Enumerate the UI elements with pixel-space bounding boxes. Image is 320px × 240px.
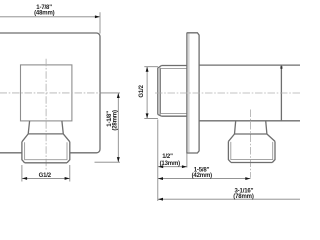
outlet flare side view xyxy=(228,134,275,141)
dimension G1/2 side view line xyxy=(146,67,148,118)
dimension 48mm arrow xyxy=(95,15,100,18)
valve body front square xyxy=(21,65,72,121)
outlet shoulder side view xyxy=(235,133,267,135)
outlet neck side view xyxy=(235,121,267,134)
svg-text:(42mm): (42mm) xyxy=(192,173,213,179)
thread nut G1/2 front view xyxy=(22,142,70,163)
dimension 28mm arrows xyxy=(117,93,120,162)
dimension G1/2 side view extension lines xyxy=(144,67,158,119)
vertical centerline front view xyxy=(45,59,47,170)
svg-text:(48mm): (48mm) xyxy=(34,11,55,17)
dimension 28mm extension bottom xyxy=(95,161,121,163)
mark on right face xyxy=(280,66,282,69)
dimension 13mm extension line xyxy=(186,153,188,168)
svg-text:(28mm): (28mm) xyxy=(112,110,118,131)
svg-text:(13mm): (13mm) xyxy=(160,161,181,167)
dimension 28mm extension top xyxy=(100,92,120,94)
dimension G1/2 side view arrows xyxy=(146,67,149,119)
dimension 42mm arrows xyxy=(158,177,250,180)
dimension G1/2 extension lines xyxy=(22,165,70,182)
dimension 78mm label xyxy=(233,189,254,200)
dimension 78mm line xyxy=(158,198,302,200)
wall flange disc side view xyxy=(187,33,199,153)
dimension 13mm arrows xyxy=(158,165,187,168)
dimension G1/2 line xyxy=(22,177,70,179)
thread nut G1/2 side view xyxy=(228,141,275,162)
dimension 48mm extension line xyxy=(99,12,101,33)
dimension 42mm line xyxy=(158,178,251,180)
svg-text:G1/2: G1/2 xyxy=(39,173,52,179)
dimension 28mm line xyxy=(117,93,119,162)
outlet shoulder line front view xyxy=(28,133,63,135)
flange chamfer line xyxy=(188,33,190,152)
dimension 13mm line xyxy=(158,166,187,168)
dimension G1/2 arrows xyxy=(22,177,70,180)
body right face xyxy=(280,65,282,121)
outlet centerline side view xyxy=(250,110,252,178)
horizontal centerline front view xyxy=(0,92,100,94)
dimension 28mm label xyxy=(107,110,118,131)
svg-text:(78mm): (78mm) xyxy=(233,194,254,200)
threaded inlet stub side view xyxy=(158,68,160,115)
dimension 78mm arrow xyxy=(158,198,163,201)
bottom extension line side view xyxy=(157,120,159,202)
outlet flare cone front view xyxy=(22,134,70,142)
dimension 48mm line xyxy=(0,16,100,18)
thread minor lines side view xyxy=(160,69,187,114)
dimension 48mm label xyxy=(34,5,55,17)
centerline side view xyxy=(155,92,302,94)
dimension 13mm label xyxy=(160,154,181,167)
svg-text:1/2": 1/2" xyxy=(162,154,173,160)
valve body side view xyxy=(199,65,301,121)
outlet neck front view xyxy=(28,121,63,134)
dimension 42mm label xyxy=(192,168,213,179)
escutcheon square outline xyxy=(0,33,100,153)
svg-text:G1/2: G1/2 xyxy=(139,84,145,97)
